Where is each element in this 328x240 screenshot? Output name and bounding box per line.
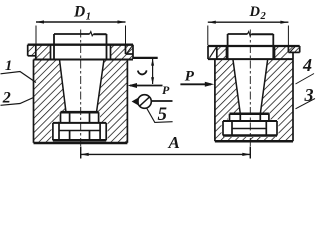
- centerline solid extensions at A dimension: [80, 147, 82, 159]
- dimension A line: [81, 153, 251, 156]
- force P arrow (left, pointing left): [128, 83, 163, 88]
- centerline right assembly: [249, 30, 251, 159]
- svg-text:P: P: [185, 68, 195, 84]
- centerline left assembly: [80, 30, 82, 159]
- holder block right assembly: [215, 59, 293, 141]
- label 3 with leader: [304, 85, 314, 105]
- svg-text:1: 1: [86, 11, 91, 22]
- label 5 with leader: [147, 108, 173, 123]
- force P arrow (right, pointing right): [180, 82, 214, 87]
- support table line right of left flange: [133, 57, 158, 59]
- svg-text:D: D: [73, 3, 85, 20]
- svg-text:1: 1: [5, 58, 12, 74]
- dimension D1 line: [36, 20, 126, 44]
- svg-text:P: P: [162, 83, 170, 97]
- dimension D2 line: [208, 21, 289, 46]
- svg-text:2: 2: [260, 11, 267, 22]
- label D1: [73, 3, 91, 22]
- punch (left, broken top): [54, 32, 107, 60]
- svg-text:A: A: [168, 133, 180, 152]
- label P (left): [162, 83, 170, 97]
- ball workpiece 5: [132, 95, 173, 109]
- die flange right assembly: [208, 46, 300, 59]
- svg-text:5: 5: [158, 104, 168, 125]
- label 4 with leader: [302, 55, 312, 75]
- label P (right): [185, 68, 195, 84]
- bottom insert right assembly: [223, 114, 277, 136]
- svg-text:4: 4: [302, 55, 312, 75]
- svg-text:D: D: [249, 4, 261, 20]
- label l (script, rotated): [138, 70, 147, 74]
- holder block left assembly: [34, 60, 128, 144]
- label 1 with leader: [5, 58, 12, 74]
- label A: [168, 133, 180, 152]
- dimension l (vertical, middle): [151, 59, 154, 85]
- label 2 with leader: [2, 90, 11, 107]
- die flange left assembly: [28, 45, 133, 60]
- punch (right, broken top): [228, 32, 274, 59]
- label D2: [249, 4, 267, 22]
- bottom insert left assembly: [53, 112, 106, 140]
